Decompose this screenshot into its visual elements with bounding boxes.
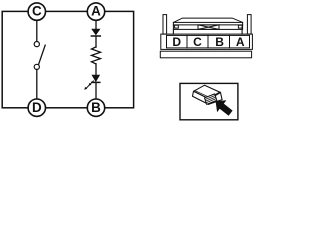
- connector ear right: [247, 15, 251, 34]
- terminal box row: [167, 35, 250, 48]
- LED emission arrow 1: [89, 81, 94, 86]
- relay label plate with X: [198, 25, 219, 30]
- connector block end face: [193, 91, 210, 104]
- diode D1 triangle: [92, 29, 100, 35]
- terminal B: [87, 99, 104, 116]
- wire LED to B: [95, 82, 97, 99]
- connector block front face: [208, 93, 222, 105]
- svg-text:A: A: [236, 35, 245, 49]
- locator icon box: [180, 83, 238, 119]
- wire diode to resistor: [95, 36, 97, 47]
- relay body lid: [173, 18, 242, 22]
- connector top rim line left: [195, 91, 209, 98]
- svg-text:B: B: [215, 35, 224, 49]
- switch SW1 blade (open): [39, 45, 46, 64]
- svg-text:A: A: [91, 4, 101, 19]
- pointer arrow: [216, 100, 233, 116]
- relay leg right: [241, 29, 243, 34]
- wire A to diode: [95, 21, 97, 30]
- wire resistor to LED: [95, 64, 97, 75]
- terminal D: [28, 99, 45, 116]
- svg-text:D: D: [172, 35, 181, 49]
- terminal C: [28, 3, 45, 20]
- LED D2 cathode bar: [92, 81, 100, 83]
- relay tab left: [175, 25, 179, 28]
- resistor R1 zigzag: [92, 47, 101, 64]
- svg-text:C: C: [32, 4, 42, 19]
- relay leg left: [172, 29, 174, 34]
- connector socket snout: [205, 94, 217, 105]
- wire frame loop: [2, 11, 133, 107]
- switch SW1 contact bottom: [34, 64, 39, 69]
- switch SW1 contact top: [34, 42, 39, 47]
- connector base: [161, 34, 253, 49]
- terminal A: [87, 3, 104, 20]
- svg-text:B: B: [91, 100, 101, 115]
- LED D2 triangle: [92, 75, 100, 81]
- wire C to switch: [36, 21, 38, 42]
- relay tab right: [238, 25, 242, 28]
- connector ear left: [163, 15, 167, 34]
- relay body front face: [173, 22, 242, 29]
- connector block top face: [194, 85, 221, 99]
- mounting rail: [160, 51, 251, 58]
- svg-text:C: C: [193, 35, 202, 49]
- relay body inner line: [173, 24, 242, 26]
- wire switch to D: [36, 70, 38, 100]
- svg-text:D: D: [32, 100, 42, 115]
- connector top rim line right: [210, 92, 220, 98]
- diode D1 cathode bar: [91, 35, 100, 37]
- LED emission arrow 2: [84, 85, 90, 90]
